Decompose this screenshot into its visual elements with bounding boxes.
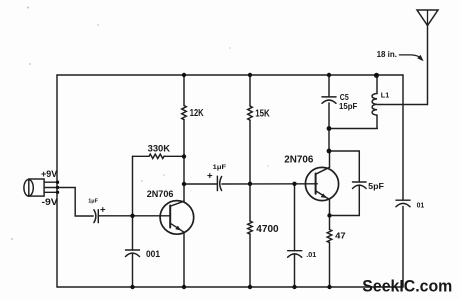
svg-text:1μF: 1μF (213, 164, 226, 171)
node Q2 emitter (327, 213, 331, 217)
capacitor C3 1uF coupling (208, 174, 222, 191)
capacitor C5 15pF (322, 75, 336, 129)
capacitor C4 .01 (288, 184, 302, 287)
battery connector P1 (24, 179, 44, 196)
node ground Q1 emitter (182, 285, 186, 289)
svg-text:SeekIC.com: SeekIC.com (362, 278, 452, 296)
node top rail / L1 (374, 73, 379, 78)
arrow 18in callout (399, 55, 423, 61)
svg-text:12K: 12K (190, 108, 204, 119)
scan speckles (decorative) (11, 6, 269, 240)
node ground C2 (130, 285, 134, 289)
svg-text:C5: C5 (340, 93, 349, 102)
wire L1 tap to antenna (377, 104, 428, 106)
resistor R3 330K (133, 154, 185, 216)
wire coupling cap to Q2 base (222, 183, 317, 185)
svg-text:330K: 330K (148, 143, 171, 153)
node Q2 collector / C6 (327, 149, 332, 154)
capacitor C6 5pF (329, 151, 366, 216)
inductor L1 (372, 75, 377, 129)
wire input cap to base node (98, 215, 132, 217)
node top rail / C5 (327, 73, 331, 77)
svg-text:2N706: 2N706 (284, 154, 313, 165)
svg-text:-9V: -9V (42, 197, 59, 207)
resistor R5 47 (327, 216, 332, 288)
wire base node to Q1 base (133, 215, 171, 217)
wire tank bottom node (329, 128, 377, 130)
wire -9V tap (44, 191, 57, 193)
capacitor C2 .001 (126, 216, 140, 287)
node ground C4 (292, 285, 296, 289)
wire Q1 collector to coupling cap (184, 183, 217, 185)
resistor R4 4700 (248, 184, 253, 287)
node Q1 base (130, 214, 134, 218)
svg-text:L1: L1 (381, 91, 389, 100)
node ground R5 (327, 285, 331, 289)
wire right rail upper segment (402, 75, 404, 200)
wire bottom ground rail (57, 286, 403, 288)
resistor R2 15K (248, 75, 253, 184)
svg-text:2N706: 2N706 (147, 189, 174, 199)
svg-text:5pF: 5pF (368, 181, 384, 191)
svg-text:+9V: +9V (41, 169, 58, 179)
svg-text:001: 001 (146, 248, 160, 259)
wire Q2 collector branch (328, 129, 330, 152)
resistor R1 12K (182, 75, 187, 184)
node tank bottom (327, 126, 332, 131)
transistor Q2 2N706 (305, 151, 338, 216)
svg-text:15K: 15K (255, 108, 270, 119)
svg-text:15pF: 15pF (339, 102, 357, 111)
wire top supply rail (57, 74, 403, 76)
antenna (417, 10, 438, 105)
svg-text:18 in.: 18 in. (377, 50, 397, 59)
wire left rail (56, 75, 58, 287)
capacitor C7 .01 output (396, 200, 410, 207)
node top rail / R1 (182, 73, 186, 77)
svg-text:.01: .01 (306, 250, 316, 259)
node center tap rail (56, 186, 59, 189)
node ground R4 (248, 285, 252, 289)
node C4 base wire (292, 182, 296, 186)
wire right rail lower segment (402, 207, 404, 288)
wire +9V tap (44, 181, 57, 183)
svg-text:4700: 4700 (256, 224, 279, 235)
node Q1 collector (182, 182, 186, 186)
node R2 R4 base wire (248, 182, 252, 186)
wire center tap to input cap (44, 188, 93, 217)
capacitor C1 1uF input (94, 208, 105, 223)
svg-text:47: 47 (335, 231, 346, 241)
node +9V rail (56, 181, 59, 184)
node -9V rail (56, 191, 59, 194)
transistor Q1 2N706 (160, 184, 194, 287)
node R3 R1 (182, 154, 186, 158)
node top rail / R2 (248, 73, 252, 77)
svg-text:1μF: 1μF (88, 199, 98, 205)
svg-text:01: 01 (417, 202, 425, 209)
